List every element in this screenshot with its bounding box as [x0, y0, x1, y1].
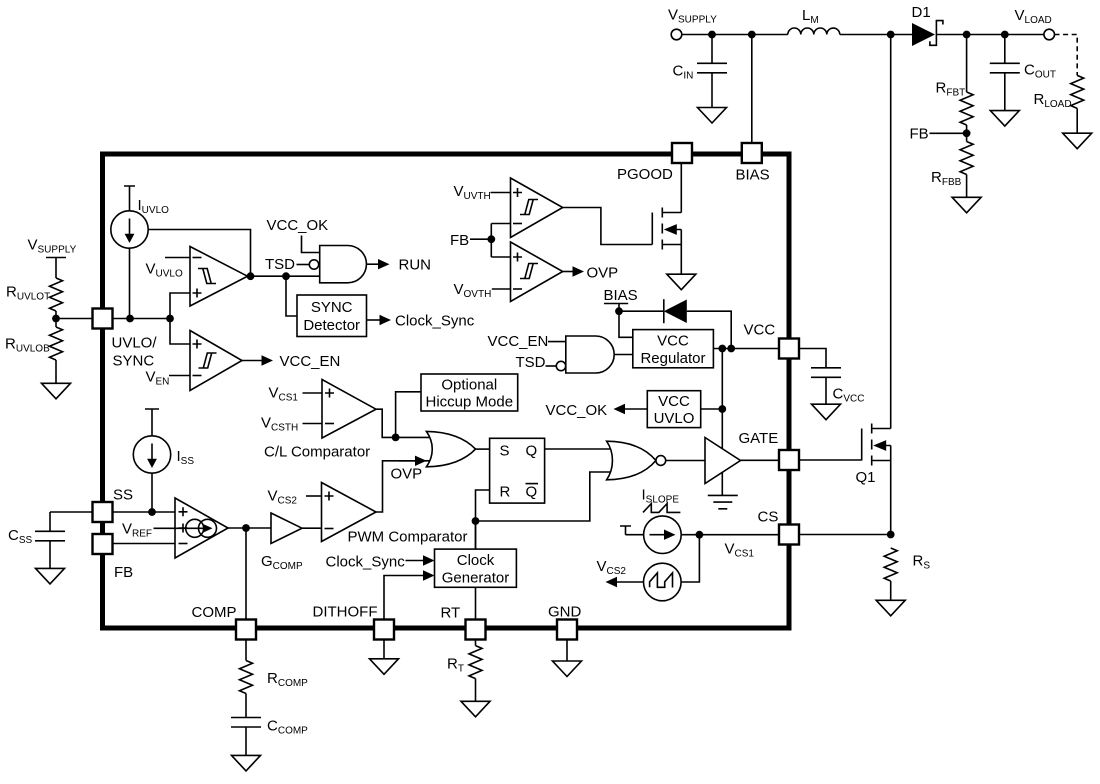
svg-text:VCC: VCC [744, 322, 776, 339]
svg-text:SYNC: SYNC [113, 353, 155, 370]
svg-text:SS: SS [113, 487, 133, 504]
svg-text:VCS1: VCS1 [269, 385, 299, 404]
svg-text:RFBT: RFBT [936, 80, 966, 99]
svg-text:IUVLO: IUVLO [138, 197, 170, 216]
svg-text:CS: CS [758, 509, 779, 526]
svg-text:RT: RT [441, 605, 461, 622]
svg-text:VSUPPLY: VSUPPLY [668, 7, 717, 26]
svg-text:GND: GND [548, 604, 582, 621]
svg-text:BIAS: BIAS [604, 287, 638, 304]
svg-text:RCOMP: RCOMP [267, 670, 308, 689]
svg-text:RS: RS [913, 553, 931, 572]
svg-text:DITHOFF: DITHOFF [313, 604, 378, 621]
svg-text:Q: Q [526, 484, 538, 501]
svg-text:TSD: TSD [265, 256, 295, 273]
svg-text:CCOMP: CCOMP [267, 718, 308, 737]
svg-text:Generator: Generator [442, 570, 510, 587]
svg-text:VSUPPLY: VSUPPLY [28, 237, 77, 256]
svg-text:RUVLOB: RUVLOB [5, 336, 50, 355]
svg-text:PWM Comparator: PWM Comparator [348, 529, 468, 546]
svg-text:TSD: TSD [516, 354, 546, 371]
svg-text:VCSTH: VCSTH [261, 415, 298, 434]
svg-text:SYNC: SYNC [311, 299, 353, 316]
svg-text:UVLO/: UVLO/ [112, 335, 158, 352]
svg-text:ISLOPE: ISLOPE [642, 487, 680, 506]
svg-text:RUN: RUN [399, 257, 432, 274]
svg-text:FB: FB [114, 564, 133, 581]
svg-text:VOVTH: VOVTH [454, 281, 492, 300]
svg-text:VCC: VCC [658, 393, 690, 410]
svg-text:GATE: GATE [739, 430, 779, 447]
svg-text:RT: RT [447, 656, 464, 675]
svg-text:R: R [500, 484, 511, 501]
svg-text:VCC: VCC [657, 333, 689, 350]
svg-text:VCS2: VCS2 [268, 488, 298, 507]
svg-text:VCC_OK: VCC_OK [546, 402, 608, 419]
svg-text:RFBB: RFBB [931, 169, 962, 188]
svg-text:LM: LM [802, 7, 819, 26]
svg-text:UVLO: UVLO [654, 410, 695, 427]
svg-text:GCOMP: GCOMP [261, 553, 303, 572]
svg-text:VUVLO: VUVLO [146, 261, 183, 280]
svg-text:ISS: ISS [177, 448, 195, 467]
svg-text:C/L Comparator: C/L Comparator [264, 444, 370, 461]
svg-text:Clock_Sync: Clock_Sync [326, 554, 406, 571]
svg-text:COUT: COUT [1024, 62, 1056, 81]
svg-text:VCS2: VCS2 [597, 558, 627, 577]
svg-text:Clock: Clock [457, 552, 495, 569]
svg-text:CIN: CIN [673, 63, 694, 82]
svg-text:VCS1: VCS1 [725, 541, 755, 560]
svg-text:VLOAD: VLOAD [1015, 7, 1052, 26]
svg-text:BIAS: BIAS [736, 167, 770, 184]
svg-text:VUVTH: VUVTH [454, 183, 491, 202]
svg-text:FB: FB [450, 232, 469, 249]
svg-text:Clock_Sync: Clock_Sync [395, 313, 475, 330]
svg-text:VEN: VEN [146, 369, 170, 388]
svg-text:Hiccup Mode: Hiccup Mode [426, 394, 514, 411]
svg-text:VCC_EN: VCC_EN [488, 333, 549, 350]
svg-text:COMP: COMP [192, 604, 237, 621]
svg-text:CVCC: CVCC [833, 386, 865, 405]
svg-text:CSS: CSS [8, 527, 33, 546]
svg-text:OVP: OVP [391, 466, 423, 483]
svg-text:FB: FB [910, 126, 929, 143]
svg-text:S: S [500, 443, 510, 460]
svg-text:Detector: Detector [303, 317, 360, 334]
svg-text:VREF: VREF [122, 521, 152, 540]
svg-text:Regulator: Regulator [640, 350, 705, 367]
svg-text:VCC_EN: VCC_EN [280, 353, 341, 370]
svg-text:RUVLOT: RUVLOT [6, 284, 50, 303]
svg-text:PGOOD: PGOOD [617, 166, 673, 183]
svg-text:VCC_OK: VCC_OK [267, 217, 329, 234]
svg-text:OVP: OVP [587, 265, 619, 282]
svg-text:RLOAD: RLOAD [1034, 91, 1072, 110]
svg-text:Q: Q [526, 443, 538, 460]
svg-text:Optional: Optional [441, 377, 497, 394]
svg-text:Q1: Q1 [856, 469, 876, 486]
svg-text:D1: D1 [912, 4, 931, 21]
